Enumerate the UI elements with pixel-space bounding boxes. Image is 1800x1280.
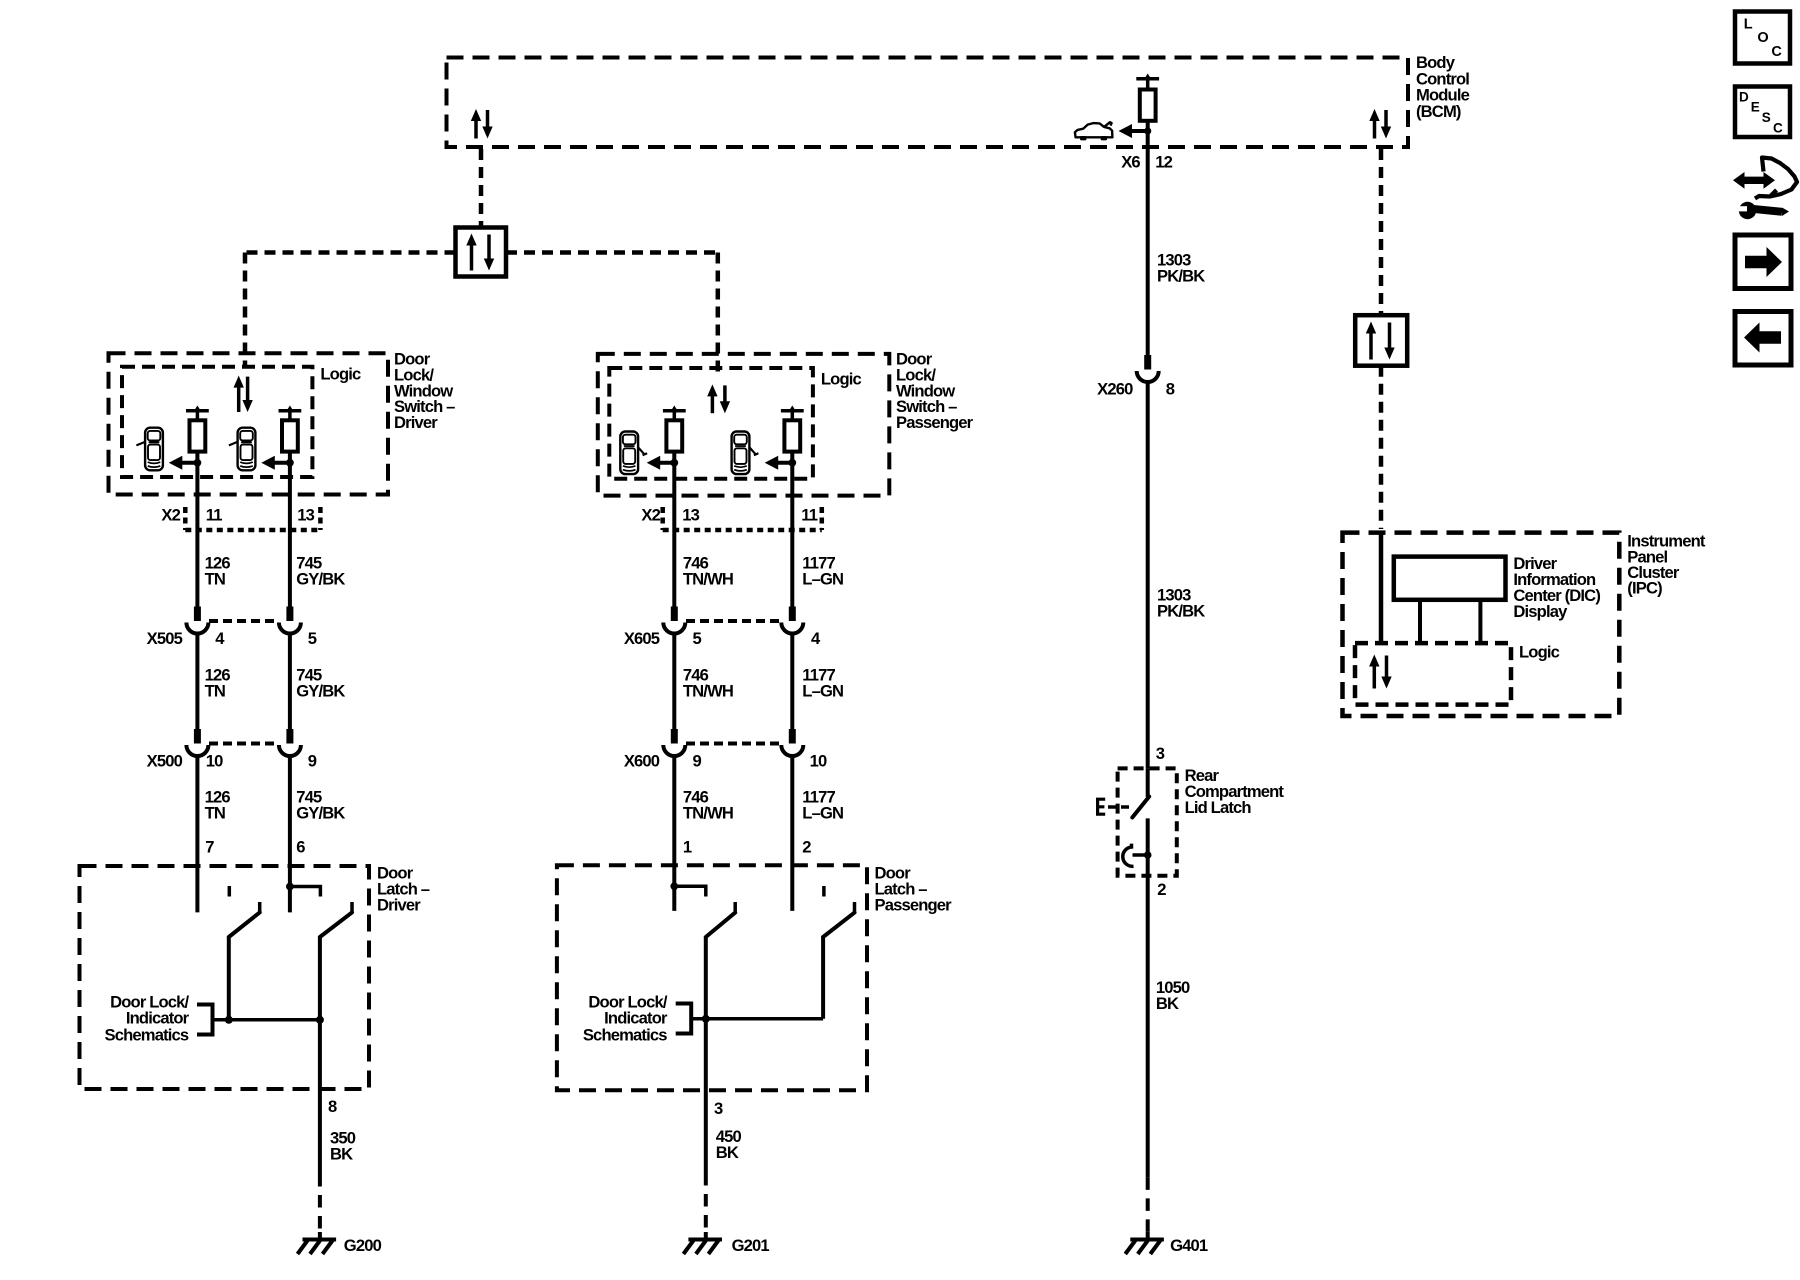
svg-text:8: 8 [328,1097,337,1116]
module box: Door Lock/Window Switch - Driver [109,353,389,494]
indicator arrow to trunk symbol [1119,124,1152,138]
svg-text:2: 2 [802,837,811,856]
module box: Door Latch - Driver [80,866,370,1089]
label Door Lock/Window Switch - Passenger [896,350,974,433]
wire: 1177 L-GN X605 to X600 [790,634,794,730]
svg-text:L–GN: L–GN [802,681,843,700]
svg-text:TN: TN [205,569,225,588]
connector X260 pin 8 [1097,355,1175,399]
wire: BCM lid-release output, pin X6-12 [1146,121,1150,356]
icon: car door lock (passenger left) [620,432,647,475]
label Door Lock/Indicator Schematics (driver) [105,992,190,1044]
svg-text:1: 1 [683,837,692,856]
label Door Latch - Driver [377,864,430,915]
wire: dashed serial data from BCM down [479,149,484,228]
svg-text:GY/BK: GY/BK [296,569,345,588]
wire: dashed serial data BCM to IPC [1379,149,1384,315]
switch: driver latch lock blade (left) [229,902,260,1020]
svg-text:PK/BK: PK/BK [1157,266,1205,285]
BCM internal serial-data arrows (right) [1369,109,1391,139]
svg-text:Logic: Logic [821,370,862,389]
svg-text:G201: G201 [732,1236,770,1255]
svg-text:Driver: Driver [377,896,421,915]
ground G200 [298,1232,382,1255]
svg-text:13: 13 [682,505,699,524]
switch: passenger latch lock blade (left) [706,902,735,1019]
svg-text:TN/WH: TN/WH [683,803,733,822]
icon box DESC [1735,87,1790,138]
svg-text:L–GN: L–GN [802,803,843,822]
icon: car door lock (passenger right) [732,432,759,475]
connector X605 pin 5 [624,607,702,649]
svg-text:11: 11 [206,505,222,524]
junction box: serial data up/down (IPC) [1355,315,1407,366]
bus: door lock indicator (driver) [213,1016,324,1024]
svg-text:S: S [1762,110,1771,125]
svg-text:BK: BK [330,1144,353,1163]
wire label 746 TN/WH (2) [683,665,733,700]
logic up/down arrows (passenger switch) [707,384,730,413]
bracket: schematics link (driver) [197,1005,213,1035]
svg-text:E: E [1751,99,1760,114]
wire: passenger switch pin 13 to X605 [672,452,676,607]
connector X500 pin 10 [147,729,224,771]
svg-text:X2: X2 [161,505,180,524]
svg-text:L: L [1744,16,1753,32]
logic box (passenger switch) [609,368,813,479]
svg-text:X2: X2 [641,505,660,524]
svg-text:10: 10 [810,752,827,771]
wire: 1303 PK/BK to lid latch [1146,383,1150,769]
svg-text:13: 13 [297,505,314,524]
wire: passenger latch pin 3 out [704,1019,708,1173]
module box: Rear Compartment Lid Latch [1118,768,1177,875]
pin label 7 (driver latch) [205,837,214,856]
connector X2 (passenger switch) [641,505,821,530]
BCM internal serial-data arrows (left) [471,109,493,139]
svg-text:Schematics: Schematics [105,1025,189,1044]
label Logic (IPC) [1519,642,1560,661]
wire: serial data to IPC logic [1379,531,1384,643]
pin label 3 (passenger latch) [714,1099,723,1118]
svg-text:Logic: Logic [1519,642,1560,661]
svg-text:10: 10 [206,752,223,771]
wire: 746 TN/WH X605 to X600 [672,634,676,730]
connector X2 (driver switch) [161,505,320,530]
bus: door lock indicator (passenger) [691,1015,823,1023]
wire label 126 TN (2) [205,665,231,700]
svg-text:TN: TN [205,681,225,700]
svg-text:GY/BK: GY/BK [296,803,345,822]
module box: Door Latch - Passenger [557,865,867,1090]
switch: rear compartment lid release (inside BCM) [1136,74,1159,121]
svg-text:X505: X505 [147,629,183,648]
indicator arrow left (driver lock) [169,456,202,470]
connector X600 pin 9 [624,729,702,771]
wire: 126 TN to door latch pin 7 [195,756,199,912]
pin label 8 (driver latch) [328,1097,337,1116]
junction box: serial data up/down (door switches) [456,228,507,277]
ground G201 [683,1232,769,1255]
junction + contact stub (driver latch pin 6) [286,883,320,897]
indicator arrow left (passenger lock) [647,456,678,470]
svg-text:8: 8 [1166,380,1175,399]
svg-text:G200: G200 [344,1236,382,1255]
DIC display legs [1420,600,1480,643]
label Door Lock/Window Switch - Driver [394,350,455,433]
svg-text:TN/WH: TN/WH [683,569,733,588]
svg-text:5: 5 [693,629,702,648]
logic box (IPC) [1355,643,1511,705]
icon: serial data communication (arrows, connector, wrench) [1733,158,1797,220]
indicator arrow left (passenger lock right) [765,456,796,470]
svg-text:7: 7 [205,837,214,856]
label Rear Compartment Lid Latch [1185,766,1285,817]
indicator arrow left (driver lock right) [261,456,294,470]
wire: driver latch pin 8 out [318,1020,322,1174]
svg-text:O: O [1757,30,1768,46]
svg-text:GY/BK: GY/BK [296,681,345,700]
svg-text:X605: X605 [624,629,660,648]
svg-text:BK: BK [716,1143,739,1162]
icon: car door lock (driver right) [229,428,256,471]
wire label 746 TN/WH (1) [683,553,733,588]
svg-text:TN/WH: TN/WH [683,681,733,700]
svg-text:TN: TN [205,803,225,822]
switch: passenger door lock (right) [781,406,804,452]
label Door Lock/Indicator Schematics (passenger) [583,992,668,1044]
wire: dashed serial data into IPC [1379,366,1384,529]
svg-text:2: 2 [1157,880,1166,899]
svg-text:Passenger: Passenger [896,413,974,432]
connector X600 pin 10 [686,729,827,771]
svg-text:Driver: Driver [394,413,438,432]
wire label 126 TN (1) [205,553,231,588]
bracket: schematics link (passenger) [676,1004,692,1034]
wire label 450 BK [716,1127,742,1162]
svg-text:PK/BK: PK/BK [1157,601,1205,620]
switch: driver door lock (right) [279,406,302,452]
connector X605 pin 4 [686,607,821,649]
svg-text:9: 9 [693,752,702,771]
svg-text:(BCM): (BCM) [1416,102,1461,121]
svg-text:BK: BK [1156,994,1179,1013]
connector X505 pin 5 [209,607,317,649]
junction + contact stub (passenger latch pin 1) [670,882,705,896]
switch: passenger door lock (left) [663,406,686,452]
wire label 1303 PK/BK (upper) [1157,250,1205,285]
wire label 126 TN (3) [205,787,231,822]
wire label 1177 L-GN (1) [802,553,843,588]
switch: passenger latch lock blade (right) [823,902,854,1019]
svg-text:Lid Latch: Lid Latch [1185,798,1252,817]
svg-text:12: 12 [1155,152,1172,171]
wire label 1050 BK [1156,978,1190,1013]
logic up/down arrows (driver switch) [234,376,253,412]
svg-text:X600: X600 [624,752,660,771]
svg-text:X6: X6 [1121,152,1140,171]
icon box LOC [1735,12,1790,64]
connector X500 pin 9 [209,729,317,771]
svg-text:(IPC): (IPC) [1627,578,1662,597]
pin label 1 (passenger latch) [683,837,692,856]
switch: driver door lock (left) [186,406,209,452]
logic up/down arrows (IPC) [1369,655,1392,689]
wire: 746 TN/WH to passenger latch pin 1 [672,756,676,911]
svg-text:9: 9 [308,752,317,771]
switch: driver latch lock blade (right) [320,902,352,1020]
svg-text:X500: X500 [147,752,183,771]
svg-text:X260: X260 [1097,380,1133,399]
svg-text:Schematics: Schematics [583,1025,667,1044]
wire label 745 GY/BK (2) [296,665,345,700]
pin label 3 (lid latch) [1156,744,1165,763]
pin label 6 (driver latch) [296,837,305,856]
label Logic (driver switch) [320,365,361,384]
svg-text:5: 5 [308,629,317,648]
svg-text:Display: Display [1513,602,1568,621]
svg-text:Logic: Logic [320,365,361,384]
svg-text:G401: G401 [1170,1236,1208,1255]
label Driver Information Center (DIC) Display [1513,554,1600,621]
wire: passenger switch pin 11 to X605 [790,452,794,607]
svg-text:Passenger: Passenger [875,896,953,915]
svg-text:3: 3 [1156,744,1165,763]
svg-text:6: 6 [296,837,305,856]
svg-text:L–GN: L–GN [802,569,843,588]
wire label 1303 PK/BK (lower) [1157,585,1205,620]
icon: car door lock (driver left) [136,428,163,471]
contact stub (passenger latch right) [822,886,826,897]
wire label 745 GY/BK (3) [296,787,345,822]
wire: 1050 BK [1146,876,1150,1178]
logic box (driver switch) [122,367,312,477]
label Door Latch - Passenger [875,864,953,915]
contact stub (driver latch left) [228,886,232,897]
label Body Control Module (BCM) [1416,53,1470,121]
wire label 1177 L-GN (3) [802,787,843,822]
wire: dashed drop to G401 [1146,1177,1150,1232]
latch pawl hook [1123,844,1152,867]
wire: dashed bus to driver switch [245,253,456,368]
module box: Instrument Panel Cluster (IPC) [1343,533,1620,716]
pin label 2 (passenger latch) [802,837,811,856]
wire: driver switch pin 11 to X505 [195,452,199,607]
wire: 745 GY/BK to door latch pin 6 [288,756,292,912]
connector label X6 pin 12 [1121,152,1172,171]
svg-text:C: C [1773,120,1783,135]
svg-text:11: 11 [801,505,817,524]
wire: 745 GY/BK X505 to X500 [288,634,292,730]
wire label 745 GY/BK (1) [296,553,345,588]
ground G401 [1125,1232,1208,1255]
wire label 350 BK [330,1128,356,1163]
display: Driver Information Center (DIC) [1394,557,1506,600]
module box: Body Control Module (BCM) [447,58,1409,148]
svg-text:D: D [1739,90,1749,105]
wire label 746 TN/WH (3) [683,787,733,822]
wire: 1177 L-GN to passenger latch pin 2 [790,756,794,911]
wire: dashed bus to passenger switch [506,253,718,373]
icon box: arrow right (next) [1735,235,1791,289]
svg-text:C: C [1771,44,1782,60]
wire: 126 TN X505 to X500 [195,634,199,730]
pin label 2 (lid latch) [1157,880,1166,899]
wire: dashed drop to G200 [318,1174,322,1232]
switch: lid latch contact [1132,768,1149,875]
label Logic (passenger switch) [821,370,862,389]
wire: driver switch pin 13 to X505 [288,452,292,607]
module box: Door Lock/Window Switch - Passenger [598,354,890,496]
latch striker E symbol [1098,799,1131,814]
wire label 1177 L-GN (2) [802,665,843,700]
icon box: arrow left (back) [1735,312,1791,366]
connector X505 pin 4 [147,607,226,649]
wire: dashed drop to G201 [704,1173,708,1232]
label Instrument Panel Cluster (IPC) [1627,531,1706,597]
icon: vehicle with open trunk [1075,122,1113,140]
svg-text:3: 3 [714,1099,723,1118]
